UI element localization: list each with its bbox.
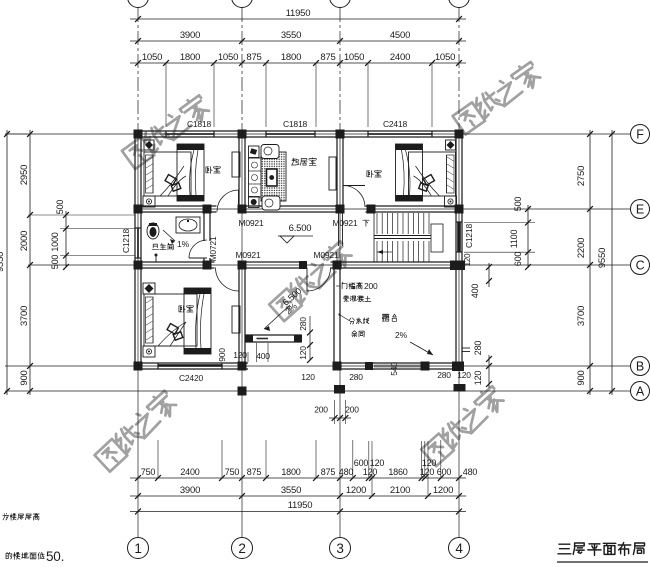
window C2420 bottom wall bedroom3 xyxy=(158,365,222,367)
room label bedroom3 xyxy=(179,305,193,312)
svg-text:875: 875 xyxy=(321,467,336,477)
svg-text:2%: 2% xyxy=(395,330,408,340)
wall interior grid 2 lower xyxy=(238,262,240,369)
svg-text:3700: 3700 xyxy=(19,306,30,326)
window C1218 right wall stairs xyxy=(458,222,460,252)
svg-text:120: 120 xyxy=(473,371,483,386)
grid bubbles bottom xyxy=(128,538,149,559)
room label livingroom xyxy=(292,158,317,165)
svg-text:C1818: C1818 xyxy=(283,119,308,129)
dimension row top 3900/3550/4500 xyxy=(130,40,466,42)
wall terrace left xyxy=(333,262,335,369)
terrace label xyxy=(382,314,396,321)
svg-text:120: 120 xyxy=(420,467,435,477)
right dim chain 400/280/120 xyxy=(488,263,490,287)
svg-text:2100: 2100 xyxy=(390,485,410,496)
bedroom3 nightstand bottom xyxy=(143,346,155,357)
svg-text:120: 120 xyxy=(298,346,308,360)
svg-text:600: 600 xyxy=(354,458,369,468)
wall interior grid 3 upper xyxy=(336,131,338,212)
wall interior grid 2 upper xyxy=(238,131,240,212)
svg-text:3550: 3550 xyxy=(281,30,301,41)
leader line for water parting xyxy=(340,315,350,321)
svg-text:1050: 1050 xyxy=(142,52,162,63)
grid line E horizontal xyxy=(135,208,631,210)
grid line 3 vertical xyxy=(339,8,341,131)
extension lines top xyxy=(165,63,167,127)
right dim inner 500/1100/600 xyxy=(527,205,529,268)
grid line 2 vertical xyxy=(241,8,243,131)
bottom dim detail row xyxy=(130,477,466,479)
svg-text:B: B xyxy=(636,360,644,374)
svg-text:875: 875 xyxy=(320,52,335,63)
slope 2% corridor arrow xyxy=(264,305,290,329)
svg-text:11950: 11950 xyxy=(288,500,313,511)
svg-text:120: 120 xyxy=(301,372,315,382)
svg-text:M0921: M0921 xyxy=(314,250,339,260)
svg-text:1800: 1800 xyxy=(281,52,301,63)
columns (black) xyxy=(134,130,143,139)
wall exterior left along grid 1 xyxy=(134,131,136,369)
room label bedroom2 xyxy=(367,170,381,177)
door M0921 terrace (in C wall) xyxy=(307,268,331,292)
svg-text:M0921: M0921 xyxy=(239,218,264,228)
small posts corridor wall and terrace xyxy=(245,335,253,343)
column at grid4/A xyxy=(454,384,466,392)
svg-text:2400: 2400 xyxy=(180,467,199,477)
svg-text:2750: 2750 xyxy=(576,166,587,186)
wall along E xyxy=(135,205,217,207)
svg-text:9550: 9550 xyxy=(0,252,6,272)
svg-text:1100: 1100 xyxy=(509,230,519,249)
stair guard rail below E xyxy=(338,212,340,246)
dimension row top detail xyxy=(130,62,466,64)
grid bubbles right F E C B A xyxy=(631,125,650,144)
watermark 1 top-left xyxy=(121,93,213,169)
livingroom side table top xyxy=(249,146,260,158)
parapet stub right of grid 4 xyxy=(462,347,470,349)
grid line 4 vertical xyxy=(458,8,460,131)
svg-text:A: A xyxy=(636,385,645,399)
svg-text:F: F xyxy=(636,128,644,142)
livingroom coffee table xyxy=(267,169,278,186)
svg-text:3900: 3900 xyxy=(180,485,200,496)
svg-text:1000: 1000 xyxy=(50,232,60,251)
stairs treads upper flight xyxy=(376,213,378,234)
svg-text:3: 3 xyxy=(336,541,343,556)
grid line A horizontal xyxy=(5,390,631,392)
window C2418 top wall right xyxy=(368,133,432,135)
svg-text:C1818: C1818 xyxy=(187,119,212,129)
livingroom armchair top xyxy=(261,145,279,159)
grid line F horizontal xyxy=(5,133,631,135)
svg-text:9550: 9550 xyxy=(597,248,608,268)
svg-text:875: 875 xyxy=(246,52,261,63)
left dim line 9550 xyxy=(6,130,8,395)
svg-text:6.500: 6.500 xyxy=(289,223,312,234)
left dim line main xyxy=(29,130,31,395)
dimension row top total 11950 xyxy=(130,18,466,20)
svg-text:200: 200 xyxy=(364,281,378,291)
bedroom3 clutter xyxy=(167,324,178,335)
door M0921 bedroom3 (in C wall) xyxy=(216,268,240,292)
svg-text:480: 480 xyxy=(339,467,354,477)
svg-text:3550: 3550 xyxy=(281,485,301,496)
room label bathroom xyxy=(152,243,173,250)
svg-text:480: 480 xyxy=(463,467,478,477)
window C1818 top wall middle xyxy=(266,133,315,135)
svg-text:120: 120 xyxy=(233,350,247,360)
bedroom3 bed xyxy=(144,294,197,346)
note rest same xyxy=(352,331,365,337)
left extension lines xyxy=(28,214,135,216)
svg-text:120: 120 xyxy=(422,458,437,468)
svg-text:C: C xyxy=(636,259,645,273)
bedroom2 furniture (mirrored) xyxy=(396,140,457,207)
bedroom3 canopy/wardrobe xyxy=(184,288,211,354)
livingroom sofa xyxy=(249,158,262,197)
stairs landing rail xyxy=(374,235,431,237)
svg-text:M0921: M0921 xyxy=(333,218,358,228)
svg-text:1: 1 xyxy=(134,541,141,556)
wall bathroom east xyxy=(203,212,205,241)
livingroom tv cabinet xyxy=(329,157,336,190)
bottom extension lines detail xyxy=(157,440,159,478)
svg-text:3700: 3700 xyxy=(576,306,587,326)
grid bubbles top (cut off) xyxy=(128,0,149,8)
right dim line 9550 xyxy=(611,130,613,395)
svg-text:M0721: M0721 xyxy=(208,236,218,261)
svg-text:900: 900 xyxy=(576,370,587,385)
svg-text:120: 120 xyxy=(363,467,378,477)
note threshold 200 xyxy=(336,285,340,287)
wall exterior top along F xyxy=(134,130,463,132)
stairs treads lower flight xyxy=(376,241,378,262)
grid line C horizontal xyxy=(28,264,631,266)
bedroom3 nightstand top xyxy=(143,283,155,294)
right dim line main 2750/2200/3700/900 xyxy=(589,130,591,395)
bedroom1 bed xyxy=(144,152,191,196)
svg-text:1800: 1800 xyxy=(281,467,300,477)
corridor south wall with small window xyxy=(246,334,301,336)
note: floor height xyxy=(3,513,39,520)
livingroom carpet xyxy=(261,152,286,201)
svg-text:1050: 1050 xyxy=(218,52,238,63)
bedroom1 clutter xyxy=(165,175,176,186)
svg-text:400: 400 xyxy=(256,351,270,361)
svg-text:280: 280 xyxy=(437,370,451,380)
stairs walk line arrow xyxy=(377,251,392,253)
svg-text:900: 900 xyxy=(19,370,30,385)
left dim line inner 500/1000/500 xyxy=(65,211,67,267)
note plain concrete xyxy=(343,296,371,302)
livingroom armchair bottom xyxy=(262,196,280,210)
bedroom1 nightstand xyxy=(143,196,155,207)
door M0921 bedroom1 (in E wall) xyxy=(217,190,239,212)
bedroom1 corner lamp xyxy=(144,140,154,150)
svg-text:3900: 3900 xyxy=(180,30,200,41)
svg-text:600: 600 xyxy=(513,252,523,267)
svg-text:1200: 1200 xyxy=(433,485,453,496)
svg-text:1860: 1860 xyxy=(388,467,407,477)
note water parting line xyxy=(349,318,369,324)
svg-text:540: 540 xyxy=(389,362,399,376)
door M0921 bedroom2 (in E wall) xyxy=(344,186,366,208)
svg-text:500: 500 xyxy=(50,255,60,270)
svg-text:4500: 4500 xyxy=(390,30,410,41)
svg-text:E: E xyxy=(636,203,644,217)
svg-text:600: 600 xyxy=(437,467,452,477)
floor drain xyxy=(152,261,160,263)
bedroom1 desk xyxy=(232,152,240,177)
svg-text:1800: 1800 xyxy=(180,52,200,63)
door M0721 bathroom xyxy=(189,240,207,258)
window C1218 left wall bathroom xyxy=(137,228,139,258)
svg-text:C2418: C2418 xyxy=(383,119,408,129)
grid line B horizontal xyxy=(5,365,631,367)
svg-text:50.: 50. xyxy=(46,549,64,564)
svg-text:280: 280 xyxy=(473,341,483,356)
svg-text:400: 400 xyxy=(470,284,480,299)
svg-text:11950: 11950 xyxy=(286,8,311,19)
svg-text:2: 2 xyxy=(238,541,245,556)
note: floor lowered 50 xyxy=(6,552,44,559)
svg-text:280: 280 xyxy=(298,317,308,331)
svg-text:2200: 2200 xyxy=(576,238,587,258)
livingroom side table bottom xyxy=(249,197,260,208)
svg-text:875: 875 xyxy=(247,467,262,477)
grid line 1 vertical xyxy=(137,8,139,131)
column at grid3/A xyxy=(334,385,345,394)
bedroom1 canopy/wardrobe xyxy=(177,144,204,201)
svg-text:2000: 2000 xyxy=(19,231,30,251)
wall bottom along B bedroom3 xyxy=(135,362,248,364)
svg-text:900: 900 xyxy=(217,348,227,362)
wall exterior right along grid 4 xyxy=(455,131,457,369)
wall along C xyxy=(135,261,215,263)
bedroom3 cabinet xyxy=(232,306,240,333)
toilet xyxy=(147,223,159,239)
svg-text:200: 200 xyxy=(345,405,359,415)
bottom dim row 3900/3550/1200/2100/1200 xyxy=(130,495,466,497)
window C1818 top wall left xyxy=(166,133,214,135)
room label bedroom1 xyxy=(206,166,220,173)
svg-text:1050: 1050 xyxy=(435,52,455,63)
dim 200/200 under grid 3 xyxy=(329,417,351,419)
svg-text:750: 750 xyxy=(141,467,156,477)
svg-text:120: 120 xyxy=(457,370,471,380)
svg-text:2950: 2950 xyxy=(19,165,30,185)
terrace parapet along B xyxy=(334,362,462,364)
title: third floor plan layout xyxy=(558,543,645,556)
svg-text:750: 750 xyxy=(225,467,240,477)
svg-text:200: 200 xyxy=(314,405,328,415)
svg-text:M0921: M0921 xyxy=(236,250,261,260)
bottom dim row 11950 xyxy=(130,511,466,513)
stairs landing box xyxy=(431,224,443,252)
svg-text:500: 500 xyxy=(513,197,523,212)
washbasin xyxy=(176,217,200,233)
svg-text:500: 500 xyxy=(55,200,65,215)
svg-text:1050: 1050 xyxy=(344,52,364,63)
svg-text:4: 4 xyxy=(455,541,463,556)
svg-text:C1218: C1218 xyxy=(121,229,131,254)
svg-text:280: 280 xyxy=(349,372,363,382)
svg-text:1%: 1% xyxy=(177,239,190,249)
svg-text:1200: 1200 xyxy=(346,485,366,496)
svg-text:2400: 2400 xyxy=(390,52,410,63)
svg-text:C2420: C2420 xyxy=(179,373,204,383)
svg-text:C1218: C1218 xyxy=(464,224,474,249)
